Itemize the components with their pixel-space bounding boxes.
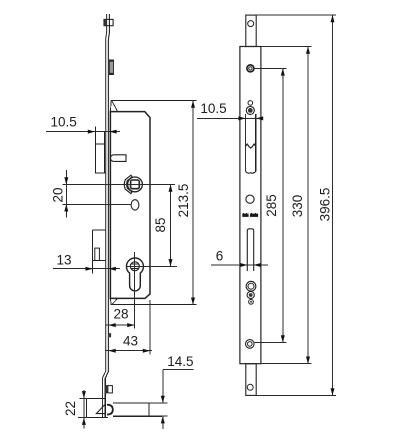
wire cylinder centerline horizontal — [126, 265, 177, 267]
node handle hub hole — [246, 195, 254, 203]
node bottom rod — [246, 364, 256, 396]
dim 213.5 — [176, 101, 195, 305]
node follower square hole — [131, 180, 140, 189]
dim 6 — [211, 249, 268, 268]
wire backplate bottom wedge slant right — [112, 298, 118, 304]
node screw stack small — [249, 299, 254, 304]
svg-text:330: 330 — [290, 195, 305, 218]
node latch bolt — [113, 403, 162, 416]
node bottom screw — [246, 340, 255, 349]
wire strip inner shade — [106, 40, 108, 371]
wire lock body outline — [110, 112, 150, 299]
svg-text:10.5: 10.5 — [200, 101, 226, 116]
node guide pin — [110, 155, 126, 162]
wire cylinder centerline overdraw — [127, 258, 144, 297]
wire backplate top wedge slant left — [109, 101, 112, 112]
dim 20 — [51, 170, 132, 218]
node top rod block — [104, 19, 113, 25]
node screw stack double circle — [246, 281, 256, 291]
wire slot lines upper — [246, 114, 256, 173]
dim 13 — [53, 253, 120, 271]
wire follower centerline overdraw — [124, 184, 146, 186]
dim 10.5 right — [197, 101, 263, 120]
dim 22 — [63, 390, 88, 429]
svg-text:28: 28 — [113, 307, 128, 322]
node bottom latch housing — [87, 399, 108, 418]
wire strip bottom jog — [102, 371, 108, 399]
wire backplate bottom edge — [111, 304, 197, 306]
node cylinder screw head — [130, 262, 139, 271]
node mounting bracket B1 — [95, 127, 105, 174]
node connector block on strip — [109, 60, 113, 76]
wire faceplate strip right edge — [108, 14, 111, 371]
wire backplate bottom wedge slant left — [109, 298, 112, 304]
svg-text:43: 43 — [123, 334, 138, 349]
dim 28 — [105, 295, 135, 329]
node latch head D — [107, 405, 113, 415]
node bracket B2 — [93, 230, 106, 274]
node small tick on strip — [109, 333, 112, 337]
wire faceplate strip left edge — [105, 14, 108, 371]
dim 396.5 — [256, 15, 336, 395]
wire follower centerline — [63, 184, 176, 186]
node follower cam crescent — [124, 175, 132, 193]
wire backplate top edge — [111, 100, 197, 102]
node screw stack mid screw — [247, 291, 254, 298]
node bottom tab — [105, 386, 112, 393]
node top screw — [246, 106, 254, 114]
svg-text:85: 85 — [153, 217, 168, 232]
wire backplate top wedge slant right — [112, 101, 118, 112]
node euro cylinder outer — [126, 258, 143, 291]
node top rivet knurled — [247, 65, 255, 73]
node KIN LONG logo — [242, 213, 258, 217]
svg-text:6: 6 — [216, 249, 224, 264]
node bottom slot 6mm — [247, 229, 253, 271]
dim 10.5 left — [46, 115, 120, 134]
node faceplate — [240, 47, 261, 364]
node top rod — [246, 15, 256, 46]
node latch triangle — [96, 404, 105, 413]
svg-text:14.5: 14.5 — [167, 354, 193, 369]
dim 14.5 — [148, 354, 194, 429]
dim 43 — [105, 300, 152, 355]
node small circle above screw — [248, 101, 253, 106]
dim 285 — [254, 68, 286, 342]
dim 85 — [153, 185, 173, 267]
node oval hole — [131, 200, 139, 210]
svg-text:285: 285 — [264, 194, 279, 217]
svg-text:22: 22 — [63, 401, 78, 416]
svg-text:213.5: 213.5 — [176, 184, 191, 218]
svg-text:20: 20 — [51, 187, 66, 202]
dim 330 — [261, 47, 312, 364]
wire cylinder centerline vertical — [134, 252, 136, 297]
node follower circle — [128, 177, 143, 192]
svg-text:13: 13 — [56, 253, 71, 268]
svg-text:10.5: 10.5 — [50, 115, 76, 130]
svg-text:396.5: 396.5 — [318, 188, 333, 222]
